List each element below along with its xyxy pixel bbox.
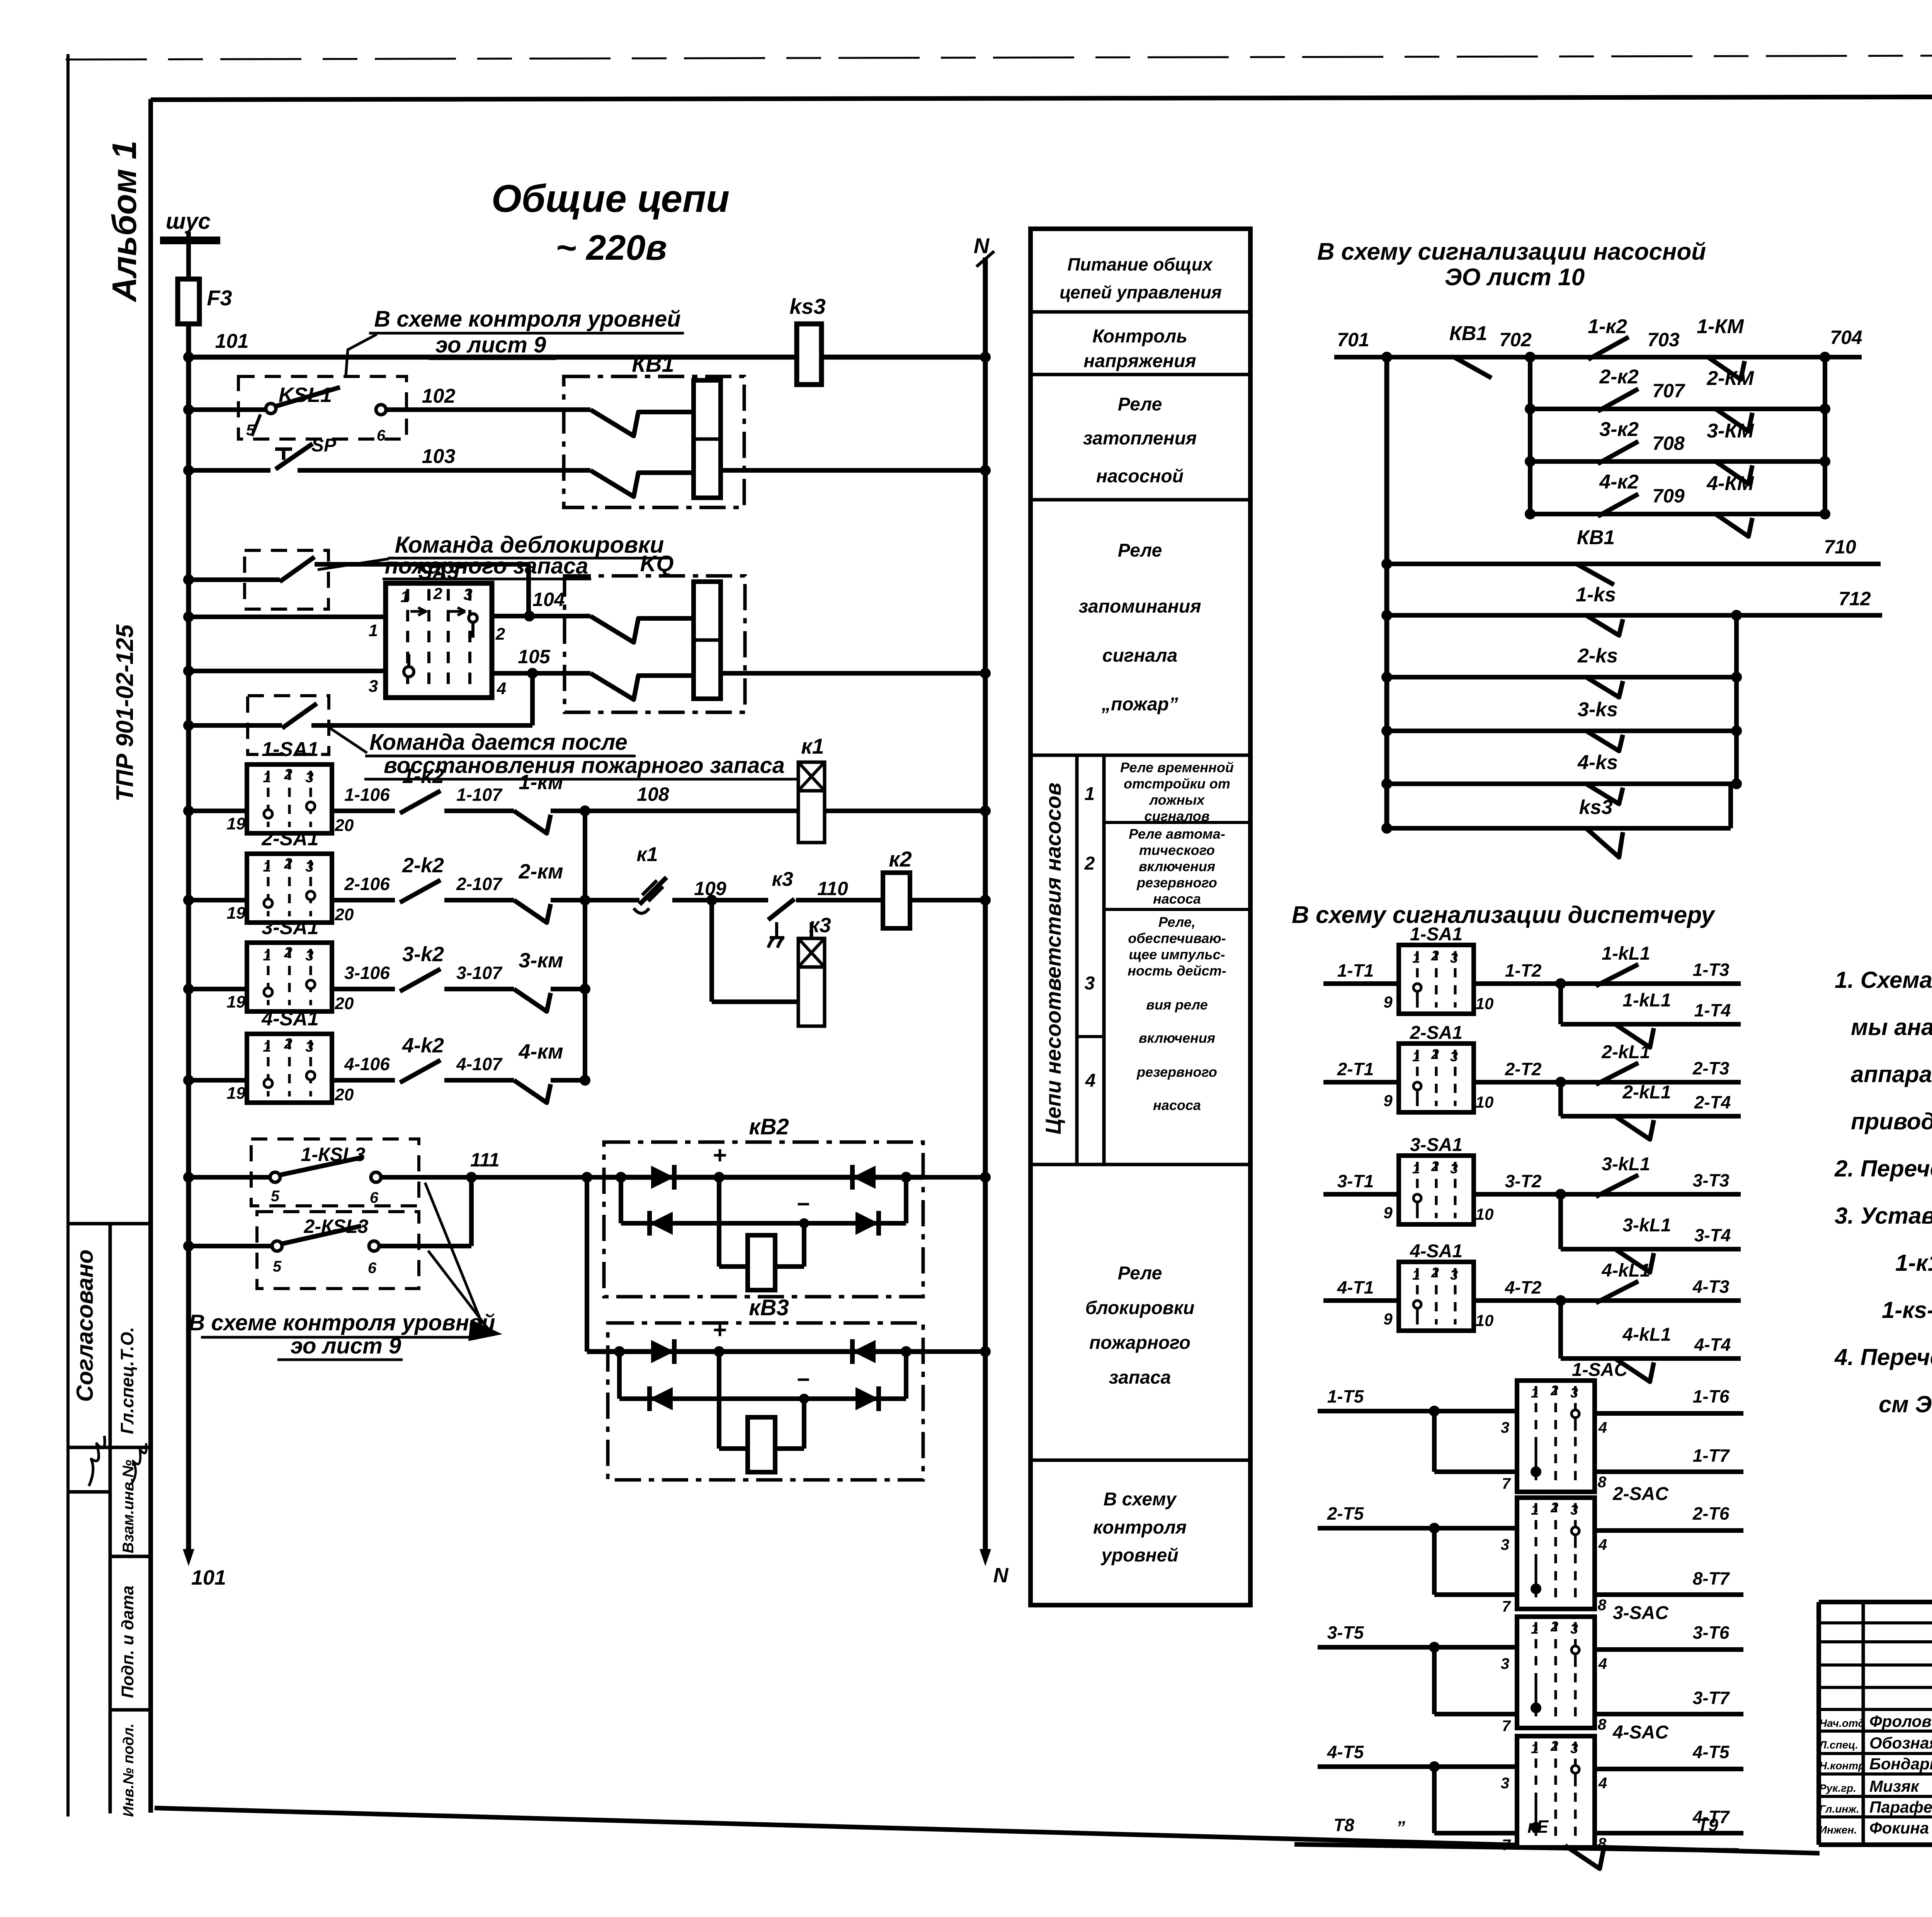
svg-text:19: 19	[227, 904, 246, 923]
svg-text:3-SAC: 3-SAC	[1613, 1603, 1669, 1623]
relay KV2 lower branch	[619, 1177, 623, 1223]
node 702	[1526, 353, 1534, 361]
wire KV2 to N bus	[923, 1175, 985, 1180]
left strip signature scribble	[89, 1436, 105, 1486]
svg-text:контроля: контроля	[1093, 1517, 1187, 1538]
svg-text:1-SA1: 1-SA1	[262, 738, 318, 761]
svg-text:8-Т7: 8-Т7	[1693, 1568, 1730, 1588]
wire 1-106	[332, 809, 395, 813]
svg-text:709: 709	[1652, 485, 1685, 507]
wire k2 to N bus	[910, 898, 985, 902]
svg-text:3: 3	[1450, 1267, 1458, 1283]
function table numbered section dividers	[1075, 755, 1079, 1165]
svg-text:7: 7	[1502, 1718, 1511, 1735]
contact 1-kL1 (branch)	[1615, 1024, 1654, 1047]
svg-text:пожарного: пожарного	[1089, 1333, 1190, 1353]
contact 3-k2	[400, 969, 440, 991]
svg-text:4-Т1: 4-Т1	[1337, 1277, 1374, 1297]
svg-text:мы аналогичны. Цифра „1” в лев: мы аналогичны. Цифра „1” в левой части о…	[1851, 1014, 1932, 1040]
svg-text:3: 3	[1570, 1385, 1578, 1401]
svg-text:8: 8	[1598, 1597, 1607, 1614]
contact 2-k2	[400, 880, 440, 902]
wire 1-T7	[1595, 1469, 1743, 1474]
wire 3-T4 branch	[1561, 1247, 1741, 1251]
node 104-deblok	[526, 612, 533, 620]
wire deblok to 104	[526, 564, 531, 616]
svg-text:1-Т4: 1-Т4	[1694, 1000, 1731, 1020]
svg-text:обеспечиваю-: обеспечиваю-	[1128, 930, 1226, 946]
svg-text:6: 6	[370, 1189, 379, 1206]
svg-text:1-к1... 4-к1, к1-10с; 1-кSР...: 1-к1... 4-к1, к1-10с; 1-кSР.... 4-кSр, к…	[1895, 1250, 1932, 1276]
svg-text:2: 2	[1431, 1158, 1439, 1174]
svg-text:1-Т2: 1-Т2	[1505, 960, 1542, 981]
svg-text:1: 1	[1531, 1502, 1539, 1518]
node bus-deblok	[185, 576, 192, 584]
svg-text:3-kL1: 3-kL1	[1602, 1154, 1650, 1175]
wire ks3 row	[1387, 826, 1731, 831]
svg-text:3: 3	[1085, 973, 1095, 994]
svg-text:КВ1: КВ1	[1449, 322, 1487, 345]
svg-text:3-k2: 3-k2	[402, 943, 444, 966]
svg-text:цепей управления: цепей управления	[1060, 282, 1222, 302]
svg-text:Гл.инж.: Гл.инж.	[1819, 1803, 1859, 1815]
svg-text:щее импульс-: щее импульс-	[1129, 947, 1225, 962]
svg-text:4-SAC: 4-SAC	[1612, 1722, 1669, 1743]
svg-text:ность дейст-: ность дейст-	[1128, 963, 1226, 979]
svg-text:3: 3	[1450, 1049, 1458, 1064]
wire nasos row 2	[1530, 407, 1825, 411]
svg-text:10: 10	[1476, 994, 1494, 1013]
relay KV2 coil	[748, 1235, 775, 1290]
wire 1-km to junction	[551, 809, 585, 813]
svg-text:1: 1	[263, 1039, 271, 1055]
wire 1-T7 branch	[1434, 1469, 1517, 1474]
wire bus to SA3 pin1	[189, 615, 386, 619]
svg-text:3-ks: 3-ks	[1578, 698, 1618, 721]
contact 1-k2	[400, 791, 440, 813]
svg-text:к3: к3	[772, 868, 793, 890]
svg-text:SA3: SA3	[418, 560, 459, 584]
relay KV1 box	[564, 376, 744, 507]
svg-text:резервного: резервного	[1136, 1064, 1217, 1080]
svg-text:Инв.№ подл.: Инв.№ подл.	[121, 1723, 137, 1817]
svg-text:3-SA1: 3-SA1	[1410, 1135, 1463, 1155]
wire 4-107	[444, 1078, 514, 1083]
svg-text:1: 1	[1412, 1049, 1420, 1064]
svg-text:тического: тического	[1139, 842, 1215, 858]
svg-text:к1: к1	[636, 843, 658, 866]
svg-text:20: 20	[335, 816, 354, 835]
svg-text:Бондарь: Бондарь	[1869, 1755, 1932, 1773]
svg-text:3: 3	[1501, 1655, 1509, 1672]
left bus bottom arrow	[183, 1549, 194, 1566]
svg-text:+: +	[713, 1317, 726, 1343]
switch 2-SA1 box	[247, 854, 332, 923]
svg-text:4. Перечень элементов настояще: 4. Перечень элементов настоящей схемы	[1834, 1344, 1932, 1370]
wire rung2 to k1 contact	[585, 898, 639, 902]
relay KV3 box	[608, 1323, 923, 1480]
svg-text:Нач.отд: Нач.отд	[1819, 1717, 1865, 1729]
contact 1-km	[514, 811, 551, 833]
svg-text:Реле: Реле	[1118, 540, 1162, 561]
svg-text:3-kL1: 3-kL1	[1622, 1215, 1671, 1236]
wire 102	[189, 407, 267, 412]
svg-text:1-Т1: 1-Т1	[1337, 960, 1374, 981]
svg-text:1-Т5: 1-Т5	[1327, 1386, 1364, 1406]
wire 101	[189, 355, 985, 360]
node 1-T5 branch	[1430, 1407, 1438, 1415]
wire 4-km to junction	[551, 1078, 585, 1083]
svg-text:2-Т6: 2-Т6	[1692, 1503, 1730, 1524]
svg-text:707: 707	[1652, 380, 1685, 402]
svg-text:−: −	[796, 1192, 810, 1217]
svg-text:1: 1	[263, 859, 271, 875]
svg-text:3: 3	[1501, 1775, 1509, 1792]
svg-text:2-Т1: 2-Т1	[1337, 1059, 1374, 1079]
svg-text:3: 3	[1501, 1419, 1509, 1436]
svg-text:101: 101	[191, 1566, 226, 1589]
svg-text:2: 2	[1431, 1046, 1439, 1062]
svg-text:Фокина: Фокина	[1869, 1819, 1929, 1837]
svg-text:уровней: уровней	[1100, 1545, 1178, 1566]
svg-text:3: 3	[369, 677, 378, 696]
svg-text:8: 8	[1598, 1474, 1607, 1491]
svg-text:3-Т3: 3-Т3	[1693, 1170, 1730, 1190]
contact 2-kL1 (branch)	[1615, 1116, 1654, 1139]
left strip stamp table	[68, 1222, 151, 1226]
switch 1-SA1 box	[1399, 945, 1474, 1014]
svg-text:19: 19	[227, 1084, 246, 1103]
svg-text:3: 3	[1450, 950, 1458, 966]
svg-text:сигнала: сигнала	[1102, 645, 1177, 666]
svg-text:2-SA1: 2-SA1	[1410, 1023, 1463, 1043]
svg-text:1-ks: 1-ks	[1576, 584, 1616, 606]
wire 109	[672, 898, 768, 902]
svg-text:5: 5	[246, 422, 255, 439]
svg-text:704: 704	[1830, 327, 1862, 348]
wire KQ to N bus	[721, 671, 985, 676]
svg-text:1: 1	[400, 587, 409, 606]
svg-text:2: 2	[1550, 1382, 1558, 1398]
svg-text:В схему сигнализации насосной: В схему сигнализации насосной	[1317, 238, 1706, 265]
svg-text:кЕ: кЕ	[1527, 1817, 1549, 1837]
leader to komanda contact	[327, 726, 367, 753]
svg-text:1-КМ: 1-КМ	[1697, 315, 1744, 338]
svg-text:8: 8	[1598, 1716, 1607, 1733]
svg-text:3-Т1: 3-Т1	[1337, 1171, 1374, 1191]
svg-text:ЭО лист 10: ЭО лист 10	[1445, 264, 1585, 291]
svg-text:5: 5	[271, 1188, 280, 1205]
svg-text:N: N	[993, 1564, 1009, 1587]
svg-text:4-k2: 4-k2	[402, 1034, 444, 1057]
svg-text:2-км: 2-км	[518, 860, 563, 883]
switch 3-SAC box	[1517, 1617, 1595, 1728]
wire 2-T5	[1318, 1526, 1517, 1531]
contact 4-km	[514, 1080, 551, 1103]
svg-text:Взам.инв.№: Взам.инв.№	[120, 1460, 137, 1553]
svg-text:N: N	[974, 233, 990, 258]
svg-text:1: 1	[1412, 1267, 1420, 1283]
svg-text:привода, меняется на „2”.... „: привода, меняется на „2”.... „4”.	[1851, 1108, 1932, 1134]
svg-text:4: 4	[1598, 1655, 1607, 1672]
svg-text:блокировки: блокировки	[1085, 1298, 1195, 1318]
wire 1-T1	[1323, 981, 1399, 986]
wire 1-T2	[1474, 981, 1741, 986]
svg-text:отстройки от: отстройки от	[1124, 776, 1230, 792]
svg-text:6: 6	[368, 1260, 377, 1277]
svg-text:2-kL1: 2-kL1	[1601, 1042, 1650, 1062]
wire 1-107	[444, 809, 514, 813]
svg-text:к1: к1	[801, 734, 824, 758]
wire 4-T4 branch	[1561, 1356, 1741, 1361]
svg-text:Контроль: Контроль	[1092, 326, 1187, 347]
contact 3-km	[514, 989, 551, 1011]
svg-text:108: 108	[637, 783, 669, 805]
svg-text:4-ks: 4-ks	[1577, 751, 1618, 774]
wire 4-T2	[1474, 1298, 1741, 1303]
node bus-103	[185, 466, 192, 474]
svg-text:SP: SP	[311, 435, 337, 456]
wire 104	[492, 614, 565, 618]
svg-text:2-к2: 2-к2	[1599, 366, 1639, 388]
svg-text:701: 701	[1337, 329, 1369, 351]
wire 4-T7 branch	[1434, 1831, 1517, 1835]
wire 1-T7 branch vertical	[1432, 1411, 1437, 1472]
svg-text:В схему: В схему	[1104, 1489, 1177, 1510]
svg-text:9: 9	[1383, 1091, 1393, 1110]
contact komanda	[282, 703, 317, 728]
wire k1 to N bus	[825, 809, 985, 813]
svg-text:кВ2: кВ2	[749, 1114, 789, 1139]
contact komanda dashed box	[248, 696, 329, 754]
node 4-T2 branch	[1557, 1297, 1565, 1304]
svg-text:3: 3	[1570, 1502, 1578, 1518]
function table frame	[1031, 229, 1250, 1605]
svg-text:20: 20	[335, 1085, 354, 1104]
switch 2-SAC box	[1517, 1498, 1595, 1609]
contact 2-km	[514, 900, 551, 923]
svg-text:3: 3	[305, 770, 313, 786]
svg-text:111: 111	[470, 1149, 500, 1171]
svg-text:19: 19	[227, 993, 246, 1011]
svg-text:7: 7	[1502, 1475, 1511, 1492]
svg-text:напряжения: напряжения	[1083, 351, 1196, 371]
svg-text:Т9: Т9	[1697, 1815, 1718, 1835]
svg-text:3: 3	[305, 948, 313, 964]
svg-text:1: 1	[1412, 1161, 1420, 1176]
node N-101	[981, 353, 989, 361]
svg-text:насосной: насосной	[1096, 466, 1184, 487]
svg-text:3-Т6: 3-Т6	[1693, 1622, 1730, 1643]
svg-text:20: 20	[335, 905, 354, 924]
svg-text:2-КМ: 2-КМ	[1706, 367, 1754, 390]
wire 3-kL1 branch vertical	[1558, 1194, 1563, 1249]
svg-text:3-SA1: 3-SA1	[262, 916, 318, 939]
wire 4-106	[332, 1078, 395, 1083]
svg-text:703: 703	[1647, 329, 1680, 351]
svg-text:1: 1	[1085, 784, 1095, 804]
wire 4-kL1 branch vertical	[1558, 1301, 1563, 1359]
svg-text:шус: шус	[166, 209, 211, 234]
contact KSL1 dashed box	[238, 376, 406, 439]
svg-text:708: 708	[1652, 432, 1685, 454]
svg-text:аппаратов и маркировки цепей,: аппаратов и маркировки цепей, обозначающ…	[1851, 1061, 1932, 1087]
svg-text:4: 4	[1598, 1775, 1607, 1792]
svg-text:19: 19	[227, 814, 246, 833]
svg-text:3-106: 3-106	[344, 963, 390, 983]
svg-text:Рук.гр.: Рук.гр.	[1819, 1782, 1856, 1794]
wire 3-T1	[1323, 1192, 1399, 1197]
svg-text:1-107: 1-107	[456, 785, 503, 805]
wire 2-km to junction	[551, 898, 585, 902]
svg-text:”: ”	[1396, 1817, 1405, 1837]
wire 701-704 row	[1334, 355, 1862, 359]
svg-text:затопления: затопления	[1083, 428, 1197, 449]
svg-text:2. Перечень аппаратуры приведе: 2. Перечень аппаратуры приведен для четы…	[1834, 1156, 1932, 1182]
svg-text:4-kL1: 4-kL1	[1601, 1260, 1650, 1281]
svg-text:1-Т3: 1-Т3	[1693, 960, 1730, 980]
relay KQ contact upper	[565, 614, 590, 618]
svg-text:4-107: 4-107	[456, 1054, 503, 1074]
function table row lines	[1031, 310, 1250, 314]
svg-text:1-106: 1-106	[344, 785, 390, 805]
wire 3-106	[332, 987, 395, 991]
leader lines to KSL3 text	[425, 1183, 482, 1324]
svg-text:насоса: насоса	[1153, 1097, 1201, 1113]
wire komanda rung	[189, 723, 282, 728]
wire 2-T1	[1323, 1080, 1399, 1084]
svg-text:3: 3	[463, 585, 472, 603]
inner frame left	[148, 99, 153, 1813]
svg-text:кВ3: кВ3	[749, 1295, 789, 1320]
wire bus to 1-SA1	[189, 809, 247, 813]
svg-text:1-kL1: 1-kL1	[1622, 990, 1671, 1011]
svg-text:вия реле: вия реле	[1146, 997, 1207, 1013]
wire 3-T7 branch vertical	[1432, 1647, 1437, 1714]
svg-text:резервного: резервного	[1136, 875, 1217, 890]
switch 3-SA1 box	[1399, 1156, 1474, 1224]
svg-text:3-107: 3-107	[456, 963, 503, 983]
svg-text:Гл.спец.Т.О.: Гл.спец.Т.О.	[117, 1327, 137, 1434]
node 712 branch	[1733, 611, 1740, 619]
wire busbar to fuse	[186, 240, 191, 279]
contact 3-kL1	[1596, 1175, 1638, 1197]
svg-text:−: −	[796, 1367, 810, 1392]
svg-text:2: 2	[284, 1036, 292, 1052]
wire KV1 to N bus	[721, 468, 985, 473]
contact deblokirovka dashed box	[245, 550, 328, 609]
wire nasos row 3	[1530, 459, 1825, 464]
wire 4-T1	[1323, 1298, 1399, 1303]
left bus 101 vertical	[186, 324, 191, 1549]
wire 4-T6	[1595, 1767, 1743, 1771]
wire rung 2-KSL3	[189, 1244, 272, 1248]
svg-text:710: 710	[1824, 536, 1856, 558]
switch 4-SA1 box	[247, 1034, 332, 1103]
svg-text:Н.контр: Н.контр	[1819, 1760, 1865, 1772]
svg-text:сигналов: сигналов	[1144, 808, 1209, 824]
wire 108	[585, 809, 798, 813]
svg-text:2: 2	[495, 625, 505, 644]
wire 3-T6	[1595, 1647, 1743, 1652]
contact 1-kL1	[1596, 964, 1638, 986]
svg-text:F3: F3	[207, 286, 232, 310]
node 3-T2 branch	[1557, 1190, 1565, 1198]
nasos vertical right 704 branch	[1823, 357, 1827, 514]
wire 2-T7 branch vertical	[1432, 1528, 1437, 1595]
svg-text:3: 3	[1501, 1536, 1509, 1553]
switch SA3 internals	[406, 589, 409, 692]
svg-text:702: 702	[1499, 329, 1532, 351]
svg-text:5: 5	[273, 1258, 282, 1275]
svg-text:3. Уставки времени реле принят: 3. Уставки времени реле принять:	[1835, 1203, 1932, 1229]
svg-text:4: 4	[1598, 1536, 1607, 1553]
svg-text:4-Т2: 4-Т2	[1505, 1277, 1542, 1297]
svg-text:4-kL1: 4-kL1	[1622, 1325, 1671, 1345]
wire 3-km to junction	[551, 987, 585, 991]
title block names table verticals	[1862, 1602, 1865, 1845]
left strip scribble 2	[131, 1443, 146, 1484]
relay KV1 contact upper	[564, 407, 590, 412]
svg-text:2: 2	[433, 584, 442, 603]
contact 4-k2	[400, 1060, 440, 1083]
wire 1-T6	[1595, 1411, 1743, 1416]
svg-text:запаса: запаса	[1109, 1367, 1171, 1388]
svg-text:2-kL1: 2-kL1	[1622, 1082, 1671, 1103]
svg-text:4-Т5: 4-Т5	[1327, 1742, 1364, 1762]
wire 3-T5	[1318, 1645, 1517, 1650]
svg-text:3-Т7: 3-Т7	[1693, 1688, 1730, 1708]
switch SA3 box	[386, 583, 492, 698]
svg-text:3: 3	[305, 1039, 313, 1055]
svg-text:2: 2	[284, 766, 292, 783]
svg-text:1: 1	[263, 948, 271, 964]
svg-text:3-к2: 3-к2	[1599, 418, 1639, 441]
svg-text:2: 2	[284, 945, 292, 961]
wire T8 row	[1294, 1844, 1739, 1851]
svg-text:к2: к2	[889, 847, 912, 871]
svg-text:3-Т4: 3-Т4	[1694, 1225, 1731, 1245]
node N-KV1	[981, 466, 989, 474]
svg-text:4-Т3: 4-Т3	[1692, 1277, 1730, 1297]
svg-text:КВ1: КВ1	[1577, 526, 1615, 549]
junction vertical rungs 1-4	[583, 811, 587, 1080]
contact 4-kL1 (branch)	[1615, 1359, 1654, 1382]
svg-text:1: 1	[263, 770, 271, 786]
wire 110	[797, 898, 883, 902]
svg-text:см ЭО лист 8: см ЭО лист 8	[1879, 1391, 1932, 1417]
wire 4-T7	[1595, 1831, 1743, 1835]
relay KV2 bridge	[604, 1175, 923, 1180]
switch 1-SA1 box	[247, 764, 332, 833]
svg-text:насоса: насоса	[1153, 891, 1201, 907]
svg-text:Обозная: Обозная	[1869, 1734, 1932, 1752]
svg-text:В схеме контроля уровней: В схеме контроля уровней	[189, 1310, 495, 1335]
wire 1-T4 branch	[1561, 1022, 1741, 1027]
svg-text:3: 3	[1450, 1161, 1458, 1176]
switch 1-SAC box	[1517, 1381, 1595, 1492]
svg-text:10: 10	[1476, 1093, 1494, 1111]
leader line to KSL1	[346, 334, 377, 376]
svg-text:3: 3	[1570, 1621, 1578, 1637]
wire 2-T4 branch	[1561, 1114, 1741, 1119]
wire 2-T2	[1474, 1080, 1741, 1084]
svg-text:3-км: 3-км	[519, 949, 563, 972]
node bus-komanda	[185, 722, 192, 729]
fuse F3	[178, 279, 199, 324]
wire 103	[189, 468, 270, 473]
relay KV3 lower branch	[617, 1352, 622, 1399]
